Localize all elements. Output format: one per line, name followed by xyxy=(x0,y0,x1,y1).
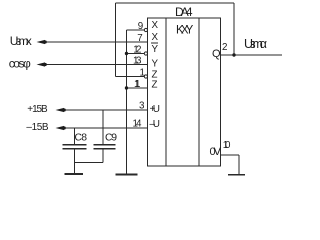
wire pin 1 from feedback xyxy=(116,76,145,78)
input arrow Uзmх xyxy=(37,40,46,44)
svg-text:Uзmх: Uзmх xyxy=(10,34,32,48)
wire pin 12 xyxy=(127,53,145,55)
svg-text:KXY: KXY xyxy=(176,24,194,36)
svg-text:–U: –U xyxy=(150,119,161,130)
wire pin 10 vertical xyxy=(238,155,240,175)
svg-text:9: 9 xyxy=(138,21,143,32)
svg-text:Y: Y xyxy=(152,59,159,70)
feedback wire top horizontal xyxy=(116,2,235,4)
capacitor C9 bottom lead xyxy=(102,150,104,163)
input arrow cosφ xyxy=(37,62,46,66)
wire pin 7 from Uзmх input xyxy=(46,41,148,43)
capacitor C8 plates xyxy=(63,144,87,146)
svg-text:2: 2 xyxy=(222,42,227,53)
capacitor C8 bottom lead xyxy=(74,150,76,174)
capacitor C9 plates xyxy=(94,144,116,146)
DA4 internal divider 1 xyxy=(165,18,167,166)
junction node output feedback xyxy=(232,53,235,56)
svg-text:1: 1 xyxy=(140,67,145,78)
overbar of Ȳ chip label xyxy=(151,42,158,44)
svg-text:+15B: +15B xyxy=(27,104,48,115)
junction node pin 11 on ground bus xyxy=(125,86,128,89)
svg-text:3: 3 xyxy=(139,101,145,112)
svg-text:Uзmα: Uзmα xyxy=(244,37,267,51)
pin 12 inversion bubble xyxy=(144,52,147,55)
feedback wire left vertical xyxy=(115,3,117,77)
svg-text:DA4: DA4 xyxy=(175,5,193,19)
svg-text:12: 12 xyxy=(133,44,141,55)
multiplier DA4 body xyxy=(148,18,221,166)
input arrow +15B xyxy=(56,108,65,112)
svg-text:+U: +U xyxy=(150,104,161,115)
svg-text:C9: C9 xyxy=(105,133,117,144)
ground bar under C8 xyxy=(65,173,84,175)
wire C8 bottom to C9 bottom xyxy=(75,162,104,164)
capacitor C8 top lead xyxy=(74,128,76,144)
output wire pin 2 xyxy=(221,54,283,56)
svg-text:Q: Q xyxy=(212,48,221,60)
wire pin 13 from cosφ input xyxy=(46,64,148,66)
svg-text:11: 11 xyxy=(134,79,140,90)
ground bus vertical xyxy=(126,30,128,174)
svg-text:0V: 0V xyxy=(210,146,222,158)
ground bar pin 10 xyxy=(228,174,245,176)
wire pin 10 horizontal xyxy=(221,154,240,156)
svg-text:C8: C8 xyxy=(75,133,88,144)
svg-text:X: X xyxy=(152,32,159,43)
pin 1 inversion bubble xyxy=(144,75,147,78)
junction node pin 12 on ground bus xyxy=(125,52,128,55)
pin 9 inversion bubble xyxy=(144,28,147,31)
wire +15B to pin 3 xyxy=(65,109,148,111)
capacitor C9 top lead xyxy=(102,110,104,144)
svg-text:X: X xyxy=(152,20,159,31)
wire pin 11 xyxy=(127,87,148,89)
feedback wire right vertical xyxy=(233,3,235,55)
input arrow -15B xyxy=(56,126,65,130)
svg-text:Z: Z xyxy=(152,80,158,91)
ground bus bar xyxy=(116,174,138,176)
svg-text:cosφ: cosφ xyxy=(9,57,31,71)
svg-text:14: 14 xyxy=(133,119,143,130)
svg-text:7: 7 xyxy=(137,33,142,44)
svg-text:13: 13 xyxy=(133,55,142,66)
svg-text:–15B: –15B xyxy=(26,122,49,133)
DA4 internal divider 2 xyxy=(198,18,200,166)
wire -15B to pin 14 xyxy=(65,127,148,129)
wire pin 9 xyxy=(127,29,145,31)
svg-text:10: 10 xyxy=(223,140,231,151)
svg-text:Y: Y xyxy=(152,44,159,55)
